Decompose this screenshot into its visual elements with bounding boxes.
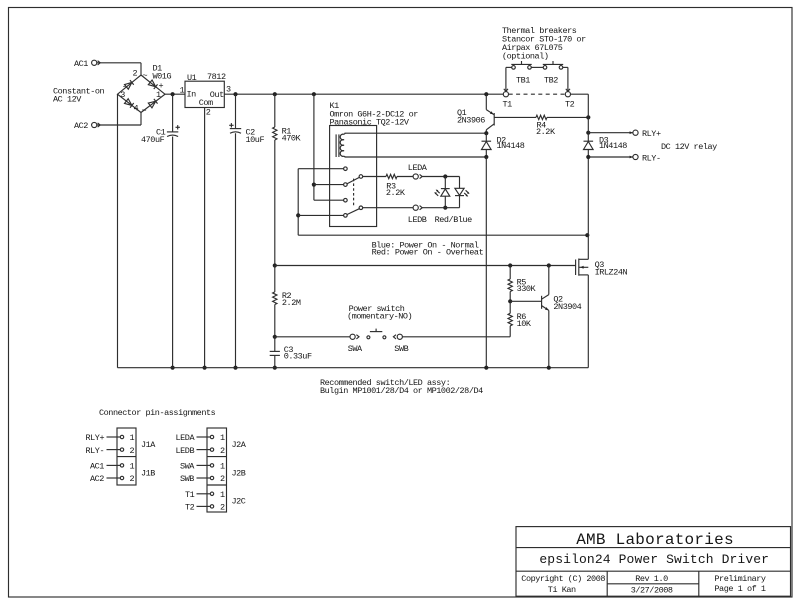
J1 pin wire AC1 (107, 464, 121, 466)
diode D1a (125, 80, 134, 89)
svg-text:W01G: W01G (153, 72, 172, 82)
wire (397, 176, 413, 178)
inductor K1 coil (340, 133, 345, 157)
J2 pin wire SWB (197, 477, 211, 479)
node junction (273, 92, 277, 96)
svg-text:7812: 7812 (207, 72, 226, 82)
LED right arrows (466, 190, 469, 193)
svg-text:Com: Com (199, 98, 213, 108)
capacitor C1 (167, 131, 178, 133)
wire (224, 93, 503, 95)
node junction (508, 299, 512, 303)
switch SWA contact (367, 336, 370, 339)
node junction (273, 366, 277, 370)
J2 pin wire T2 (197, 505, 211, 507)
wire ground rail (118, 367, 589, 369)
J1 pin circle RLY+ (120, 435, 123, 438)
svg-text:2: 2 (130, 474, 135, 484)
wire (298, 214, 343, 216)
resistor R3 (386, 174, 397, 178)
svg-text:Panasonic TQ2-12V: Panasonic TQ2-12V (330, 118, 410, 128)
svg-text:1: 1 (220, 462, 225, 472)
node junction (484, 155, 488, 159)
terminal LEDA (413, 174, 418, 179)
wire (587, 235, 589, 259)
svg-text:J2A: J2A (232, 440, 247, 450)
wire (97, 62, 141, 64)
svg-text:RLY-: RLY- (642, 154, 661, 164)
node junction (233, 92, 237, 96)
svg-text:330K: 330K (517, 284, 537, 294)
wire (588, 156, 633, 158)
terminal RLY- (633, 154, 638, 159)
diode D1d (148, 99, 157, 108)
svg-text:3/27/2008: 3/27/2008 (631, 585, 673, 595)
svg-text:2: 2 (220, 503, 225, 513)
svg-text:LEDB: LEDB (176, 446, 195, 456)
relay contact 2 (344, 183, 348, 187)
J2 pin circle T1 (210, 492, 213, 495)
wire (509, 301, 511, 313)
resistor R5 (508, 279, 512, 292)
wire (509, 292, 511, 302)
terminal LEDB (413, 205, 418, 210)
relay contact 1 (344, 167, 348, 171)
svg-text:epsilon24 Power Switch Driver: epsilon24 Power Switch Driver (539, 552, 769, 567)
transistor Q1 2N3906 (493, 113, 495, 126)
J1 pin wire AC2 (107, 477, 121, 479)
wire (275, 336, 350, 338)
wire (298, 234, 587, 236)
resistor R4 (536, 115, 547, 119)
svg-text:LEDB: LEDB (408, 215, 427, 225)
terminal AC2 (92, 122, 97, 127)
wire (548, 266, 550, 295)
wire (485, 157, 487, 368)
wire coil bottom (345, 156, 487, 158)
svg-text:DC 12V relay: DC 12V relay (661, 142, 717, 152)
svg-text:AC2: AC2 (90, 474, 104, 484)
svg-text:Connector pin-assignments: Connector pin-assignments (99, 408, 216, 418)
svg-text:~: ~ (142, 106, 147, 116)
wire (235, 94, 237, 128)
svg-text:4: 4 (134, 104, 139, 114)
wire (587, 275, 589, 368)
svg-text:10K: 10K (517, 319, 532, 329)
node junction (171, 366, 175, 370)
capacitor C2 (230, 128, 241, 130)
switch SWB contact (383, 336, 386, 339)
transistor Q2 2N3904 (541, 296, 543, 309)
J2 pin circle LEDB (210, 448, 213, 451)
wire (459, 177, 461, 189)
svg-text:RLY+: RLY+ (642, 129, 661, 139)
wire (485, 94, 487, 109)
wire (204, 108, 206, 368)
wire (97, 124, 141, 126)
node junction (203, 366, 207, 370)
terminal T1 (503, 92, 508, 97)
node junction (312, 92, 316, 96)
svg-text:Page 1 of 1: Page 1 of 1 (714, 584, 766, 594)
node junction (312, 183, 316, 187)
node junction (547, 366, 551, 370)
svg-text:SWA: SWA (180, 462, 195, 472)
node junction (484, 366, 488, 370)
svg-text:AC1: AC1 (74, 59, 88, 69)
wire (172, 94, 174, 132)
wire (275, 265, 576, 267)
wire (485, 133, 487, 141)
LED right (455, 188, 464, 195)
svg-text:2N3904: 2N3904 (553, 302, 581, 312)
wire (563, 66, 568, 68)
J1 pin circle AC2 (120, 476, 123, 479)
relay pole 2 (359, 206, 363, 210)
svg-text:2: 2 (220, 474, 225, 484)
svg-text:1: 1 (130, 433, 135, 443)
terminal AC1 (92, 60, 97, 65)
bridge rectifier D1 outline (118, 75, 166, 113)
relay contact 3 (344, 198, 348, 202)
svg-text:Ti Kan: Ti Kan (548, 585, 576, 595)
svg-text:U1: U1 (187, 73, 197, 83)
wire (444, 177, 446, 189)
resistor R2 (273, 292, 277, 305)
wire (587, 117, 589, 141)
wire (274, 266, 276, 292)
svg-text:Bulgin MP1001/28/D4 or MP1002/: Bulgin MP1001/28/D4 or MP1002/28/D4 (320, 386, 483, 396)
wire (274, 337, 276, 352)
transistor Q3 IRLZ24N (575, 260, 577, 276)
dashed wire T1-T2 (509, 93, 565, 95)
svg-text:J1B: J1B (141, 468, 155, 478)
LED left arrows (437, 190, 440, 193)
capacitor C3 (270, 350, 280, 352)
J2 pin wire T1 (197, 493, 211, 495)
svg-text:T2: T2 (565, 100, 575, 110)
svg-text:1N4148: 1N4148 (599, 141, 627, 151)
svg-text:(momentary-NO): (momentary-NO) (347, 311, 412, 321)
svg-text:Preliminary: Preliminary (714, 574, 766, 584)
svg-text:10uF: 10uF (246, 135, 265, 145)
terminal SWA (350, 334, 355, 339)
node junction (484, 92, 488, 96)
wire (547, 116, 588, 118)
node junction (547, 263, 551, 267)
node junction (443, 206, 447, 210)
J2 pin wire LEDA (197, 436, 211, 438)
svg-text:2: 2 (206, 108, 211, 118)
J1 pin wire RLY- (107, 449, 121, 451)
J1 pin circle RLY- (120, 448, 123, 451)
resistor R1 (273, 127, 277, 140)
relay armature 1 (347, 177, 359, 183)
node junction (443, 174, 447, 178)
svg-text:In: In (187, 90, 197, 100)
node junction (586, 155, 590, 159)
terminal T2 (565, 92, 570, 97)
switch button (370, 331, 382, 333)
wire (172, 137, 174, 368)
svg-text:LEDA: LEDA (408, 163, 428, 173)
diode D1b (148, 80, 157, 89)
wire (422, 207, 459, 209)
svg-text:1: 1 (220, 490, 225, 500)
svg-text:SWB: SWB (180, 474, 194, 484)
svg-text:T2: T2 (185, 503, 195, 513)
svg-text:2: 2 (130, 446, 135, 456)
svg-text:1: 1 (220, 433, 225, 443)
relay link dashed (353, 179, 355, 207)
wire (485, 150, 487, 158)
svg-text:2N3906: 2N3906 (457, 116, 485, 126)
J2 pin circle LEDA (210, 435, 213, 438)
wire (494, 116, 536, 118)
relay contact 4 (344, 214, 348, 218)
J2 pin wire LEDB (197, 449, 211, 451)
svg-text:Red: Power On - Overheat: Red: Power On - Overheat (372, 248, 484, 258)
wire (363, 207, 413, 209)
terminal RLY+ (633, 130, 638, 135)
svg-text:2.2K: 2.2K (386, 188, 406, 198)
node junction (484, 131, 488, 135)
svg-text:TB2: TB2 (544, 76, 558, 86)
svg-text:1N4148: 1N4148 (497, 141, 525, 151)
wire (509, 266, 511, 280)
svg-text:J2C: J2C (232, 496, 246, 506)
svg-text:IRLZ24N: IRLZ24N (595, 268, 628, 278)
node junction (585, 233, 589, 237)
svg-text:470K: 470K (282, 134, 302, 144)
node junction (586, 115, 590, 119)
wire (313, 94, 315, 200)
wire (510, 300, 541, 302)
svg-text:J1A: J1A (141, 440, 156, 450)
wire (314, 184, 344, 186)
wire (298, 168, 343, 170)
svg-text:TB1: TB1 (516, 76, 530, 86)
node junction (171, 92, 175, 96)
wire (588, 132, 633, 134)
svg-text:T1: T1 (185, 490, 195, 500)
svg-text:2: 2 (220, 446, 225, 456)
thermal breaker TB1 (512, 66, 516, 70)
svg-text:2.2M: 2.2M (282, 298, 301, 308)
wire coil top (345, 132, 487, 134)
svg-text:Copyright (C) 2008: Copyright (C) 2008 (521, 574, 605, 584)
wire (422, 176, 459, 178)
wire (459, 196, 461, 208)
node junction (273, 335, 277, 339)
wire (548, 310, 550, 367)
diode D1c (125, 99, 134, 108)
svg-text:AMB Laboratories: AMB Laboratories (576, 531, 734, 549)
svg-text:1: 1 (130, 462, 135, 472)
resistor R6 (508, 313, 512, 326)
svg-text:1: 1 (180, 86, 185, 96)
J1 pin circle AC1 (120, 464, 123, 467)
svg-text:3: 3 (226, 85, 231, 95)
wire (274, 355, 276, 367)
wire (274, 94, 276, 127)
svg-text:J2B: J2B (232, 468, 246, 478)
wire (235, 133, 237, 368)
wire (274, 305, 276, 337)
wire (509, 326, 511, 337)
wire (363, 176, 386, 178)
svg-text:Red/Blue: Red/Blue (435, 215, 473, 225)
svg-text:RLY+: RLY+ (86, 433, 105, 443)
svg-text:470uF: 470uF (141, 135, 165, 145)
LED left (441, 188, 450, 190)
relay armature 2 (347, 209, 359, 215)
svg-text:SWB: SWB (394, 344, 408, 354)
wire (531, 66, 543, 68)
svg-text:1: 1 (156, 90, 161, 100)
J2 pin circle SWA (210, 464, 213, 467)
svg-text:RLY-: RLY- (86, 446, 105, 456)
J1 pin wire RLY+ (107, 436, 121, 438)
svg-text:Rev 1.0: Rev 1.0 (635, 574, 668, 584)
wire (314, 199, 344, 201)
svg-text:AC 12V: AC 12V (53, 95, 82, 105)
node junction (273, 263, 277, 267)
connector J2 box (207, 428, 227, 512)
svg-text:~: ~ (143, 71, 148, 81)
svg-text:LEDA: LEDA (176, 433, 196, 443)
svg-text:SWA: SWA (348, 344, 363, 354)
node junction (233, 366, 237, 370)
wire (444, 196, 446, 208)
diode D2 1N4148 (482, 140, 492, 142)
title block frame (516, 527, 791, 597)
diode D3 1N4148 (584, 140, 594, 142)
wire (117, 94, 119, 368)
wire (505, 67, 507, 91)
thermal breaker TB2 (543, 66, 547, 70)
relay pole 1 (359, 175, 363, 179)
node junction (586, 131, 590, 135)
relay K1 box (330, 126, 377, 227)
op-amp U1 regulator box (185, 81, 224, 107)
terminal SWB (397, 334, 402, 339)
svg-text:2: 2 (133, 69, 138, 79)
connector J1 box (117, 428, 136, 485)
svg-text:2.2K: 2.2K (536, 127, 556, 137)
svg-text:(optional): (optional) (502, 52, 549, 62)
svg-text:3: 3 (120, 90, 125, 100)
node junction (296, 213, 300, 217)
svg-text:T1: T1 (503, 100, 513, 110)
J2 pin circle T2 (210, 505, 213, 508)
node junction (508, 263, 512, 267)
wire (571, 93, 589, 95)
svg-text:AC1: AC1 (90, 462, 104, 472)
wire (587, 150, 589, 236)
J2 pin circle SWB (210, 476, 213, 479)
wire (297, 169, 299, 236)
relay K1 core (335, 134, 337, 157)
wire (165, 93, 185, 95)
svg-text:0.33uF: 0.33uF (284, 352, 312, 362)
wire (274, 140, 276, 266)
svg-text:AC2: AC2 (74, 121, 88, 131)
J2 pin wire SWA (197, 464, 211, 466)
